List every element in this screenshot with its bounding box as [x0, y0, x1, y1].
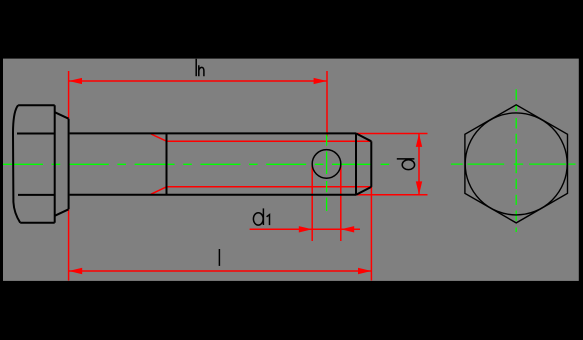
dimension line d1 (middle): [312, 228, 341, 230]
dimension line d1 (left tail): [250, 228, 313, 230]
head facet line bottom: [18, 194, 55, 196]
dimension line lh: [69, 80, 327, 82]
extension line bolt tip (l right): [370, 187, 372, 281]
arrow d1 right (pointing left): [341, 226, 354, 232]
arrow d top: [416, 134, 422, 147]
tip chamfer start vertical: [355, 133, 357, 194]
label d1 : subscript "1" stroke: [267, 215, 270, 226]
head top edge: [18, 104, 55, 106]
centerline: hole vertical (side view): [326, 135, 328, 211]
gray drawing canvas: [3, 59, 579, 281]
tip chamfer diagonal bottom: [356, 187, 371, 195]
thread runout diagonal top: [151, 134, 167, 141]
cotter pin hole: [312, 150, 341, 179]
arrow l left: [69, 268, 82, 274]
extension line d1 right: [340, 165, 342, 242]
extension line d top: [356, 133, 428, 135]
thread runout diagonal bottom: [151, 187, 167, 194]
head facet line top: [17, 133, 55, 135]
label l : stroke: [218, 249, 220, 266]
label lh : "l" stroke: [195, 59, 197, 76]
extension line under head (upper part): [68, 71, 70, 119]
extension line d1 left: [311, 165, 313, 242]
head chamfer diagonal bottom-right: [55, 209, 69, 216]
label d1 : "d" bowl: [253, 213, 263, 225]
label d1 : "d" stem: [262, 208, 264, 225]
washer face vertical: [68, 119, 70, 210]
arrow l right: [358, 268, 371, 274]
arrow d bottom: [416, 181, 422, 194]
thread minor diameter bottom line: [167, 186, 372, 188]
thread end vertical: [166, 133, 168, 194]
label d (rotated) : stem: [397, 158, 415, 160]
arrow d1 left (pointing right): [299, 226, 312, 232]
thread minor diameter top line: [167, 140, 372, 142]
head bottom edge: [20, 222, 55, 224]
shank bottom line: [70, 194, 356, 196]
dimension line d1 (right tail): [341, 228, 360, 230]
centerline: bolt axis (side view): [3, 163, 391, 165]
extension line hole center (lh right): [326, 71, 328, 137]
centerline: end view vertical: [515, 89, 517, 232]
hexagon: [465, 105, 568, 223]
centerline: end view horizontal: [451, 163, 576, 165]
arrow lh left: [69, 78, 82, 84]
arrow lh right: [314, 78, 327, 84]
extension line d bottom: [356, 194, 428, 196]
label d (rotated) : bowl: [402, 160, 414, 170]
head chamfer diagonal top-right: [55, 112, 69, 119]
chamfer circle: [465, 113, 567, 215]
bolt end face: [370, 141, 372, 187]
tip chamfer diagonal top: [356, 133, 371, 141]
dimension line d: [418, 134, 420, 195]
dimension line l: [69, 270, 372, 272]
shank top line: [70, 132, 356, 134]
head left silhouette: [13, 105, 20, 222]
head main vertical (hex corner): [54, 105, 56, 222]
extension line under head (lower part): [68, 210, 70, 281]
label lh : subscript "h" stroke: [199, 65, 204, 76]
